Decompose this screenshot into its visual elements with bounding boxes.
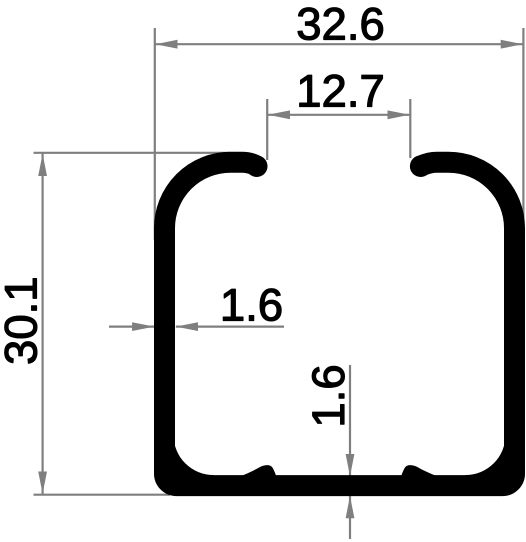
dimension 12.7 extension line left — [266, 99, 268, 160]
dimension 1.6 (left wall) arrow right — [176, 322, 198, 331]
dimension 32.6 line — [155, 43, 524, 45]
bottom-left inner fillet — [174, 435, 214, 477]
dimension 1.6 (bottom wall) upper arrow (down) — [346, 454, 355, 476]
dimension 30.1 extension line bottom — [34, 494, 171, 496]
dimension 1.6 (left wall) arrow left — [132, 322, 154, 331]
right floor bump — [401, 465, 439, 477]
dimension 32.6 arrow left — [155, 40, 177, 49]
dimension 30.1 extension line top — [34, 152, 231, 154]
dimension 12.7 label — [300, 75, 383, 107]
dimension 30.1 label (rotated) — [5, 279, 37, 364]
dimension 32.6 label — [298, 8, 383, 40]
dimension 12.7 line — [267, 114, 410, 116]
dimension 12.7 extension line right — [409, 99, 411, 158]
right lip tip cap — [410, 155, 432, 177]
dimension 1.6 (bottom wall) lower line — [349, 496, 351, 539]
dimension 1.6 (bottom wall) label (rotated) — [312, 366, 344, 424]
dimension 30.1 line — [41, 153, 43, 494]
dimension 1.6 (bottom wall) lower arrow (up) — [346, 496, 355, 518]
left lip tip cap — [246, 155, 268, 177]
dimension 1.6 (bottom wall) upper line — [349, 365, 351, 476]
dimension 30.1 arrow bottom — [38, 472, 47, 494]
bottom-right inner fillet — [466, 435, 506, 477]
C-channel profile outline (midline stroked) — [165, 162, 515, 485]
dimension 1.6 (left wall) label — [223, 289, 281, 321]
dimension 12.7 arrow left — [268, 110, 290, 119]
dimension 30.1 arrow top — [38, 154, 47, 176]
dimension 32.6 extension line right — [522, 28, 524, 240]
dimension 12.7 arrow right — [388, 110, 410, 119]
dimension 1.6 (left wall) arrow line right — [176, 326, 284, 328]
dimension 1.6 (left wall) arrow line left — [109, 326, 154, 328]
dimension 32.6 extension line left — [154, 28, 156, 240]
left floor bump — [239, 465, 277, 477]
dimension 32.6 arrow right — [501, 40, 523, 49]
